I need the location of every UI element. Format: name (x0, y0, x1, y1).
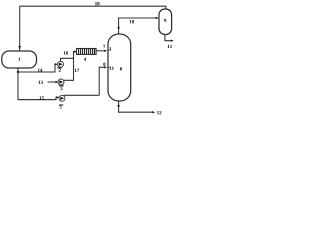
wire 13 feed arrow (48, 81, 57, 83)
wire 8 riser into column (99, 67, 105, 95)
wire 18 column top to vessel 9 (119, 18, 157, 34)
label tray 11 (110, 67, 112, 70)
heat exchanger E4 (77, 49, 97, 55)
label tray 1 (109, 47, 111, 50)
label 2 (59, 69, 61, 72)
vessel 1 (2, 51, 37, 68)
wire pump2 outlet header (61, 58, 74, 61)
label 13 (39, 81, 41, 84)
label 10 (95, 2, 97, 5)
arrowhead up on riser (117, 25, 120, 28)
arrowhead end of 12 (152, 111, 155, 113)
label 11 (168, 45, 170, 48)
label 4 (84, 58, 86, 61)
tray tick 11 (108, 66, 110, 68)
label 18 (130, 20, 132, 23)
label 15 (39, 96, 41, 99)
wire 7 exchanger to column (96, 50, 105, 52)
label 5 (60, 105, 62, 108)
node junction dot (17, 71, 19, 73)
pump P3 (58, 79, 64, 85)
label 3 (60, 87, 62, 90)
wire 11 vessel9 bottom outlet (165, 35, 172, 41)
label 16 (64, 51, 66, 54)
arrowhead into pump 2 (55, 63, 58, 65)
tray tick 1 (108, 49, 110, 51)
wire vessel1 bottom header (18, 68, 56, 100)
label 12 (157, 111, 159, 114)
column C6 (108, 34, 131, 101)
arrowhead down on stub (117, 105, 120, 108)
label 9 (164, 19, 166, 22)
wire 12 column bottoms (119, 101, 153, 112)
vessel 9 (159, 9, 172, 35)
label 1 (vessel) (19, 57, 21, 60)
label 6 (column) (120, 67, 122, 70)
label 8 (103, 63, 105, 66)
arrowhead into vessel 1 (18, 46, 21, 50)
arrowhead into vessel 9 (156, 17, 159, 19)
wire 15 to pump 5 (18, 97, 58, 99)
pump P2 (58, 61, 64, 67)
arrowhead into exchanger (74, 50, 77, 52)
wire pump5 outlet (64, 94, 99, 96)
wire 14 to pump 2 (18, 64, 56, 72)
label 17 (75, 69, 77, 72)
wire 17 pump3 outlet riser (64, 52, 75, 81)
label 14 (38, 68, 40, 71)
wire 10 overhead line vessel1 top to vessel9 top (20, 6, 166, 50)
label 7 (103, 45, 105, 48)
pump P5 (59, 95, 65, 101)
